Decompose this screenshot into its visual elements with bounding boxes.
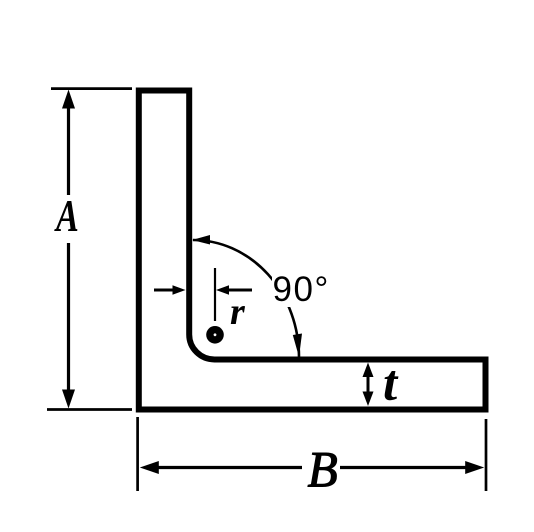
dimension t arrow line (367, 374, 370, 395)
dimension t down arrowhead (363, 392, 374, 407)
dimension A arrow line lower segment (67, 243, 70, 396)
radius r right arrow line (227, 289, 252, 292)
dimension B arrow line right segment (340, 466, 469, 469)
radius r left arrowhead (173, 285, 186, 294)
radius r extension line (214, 268, 216, 321)
radius r left arrow line (154, 289, 175, 292)
dimension t up arrowhead (363, 363, 374, 378)
90 degree arc left arrowhead (192, 235, 210, 245)
angle cross-section outline (139, 91, 486, 410)
label B (308, 441, 338, 498)
90 degree arc down arrowhead (293, 334, 302, 358)
radius r right arrowhead (216, 285, 229, 294)
dimension A up arrowhead (62, 90, 75, 109)
svg-text:t: t (383, 356, 399, 412)
dimension A arrow line upper segment (67, 104, 70, 195)
svg-text:r: r (230, 291, 246, 333)
dimension B arrow line left segment (155, 466, 302, 469)
white gap for 90 label (272, 271, 332, 307)
dimension A bottom extension line (47, 408, 132, 411)
label A (53, 190, 78, 241)
dimension B left arrowhead (140, 461, 159, 474)
svg-text:B: B (308, 441, 338, 498)
dimension B left extension line (136, 417, 139, 491)
dimension A down arrowhead (62, 390, 75, 409)
svg-text:90°: 90° (273, 270, 330, 309)
dimension B right arrowhead (465, 461, 484, 474)
90 degree arc (193, 240, 299, 357)
fillet center mark (206, 326, 224, 344)
dimension B right extension line (485, 419, 488, 491)
dimension A top extension line (51, 87, 132, 90)
svg-text:A: A (53, 190, 78, 241)
